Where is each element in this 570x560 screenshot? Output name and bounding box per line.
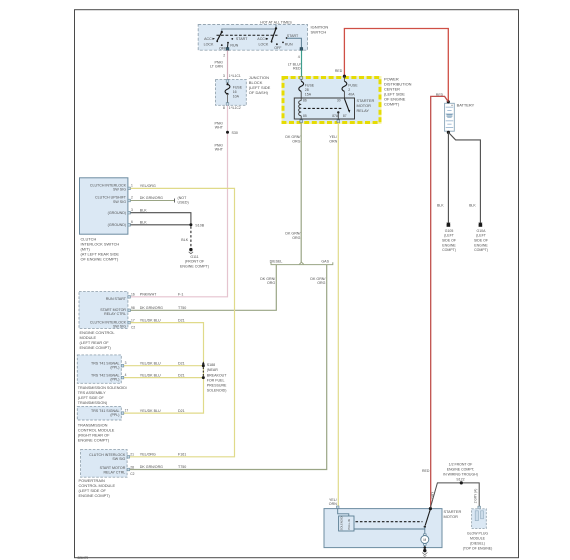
svg-text:DK GRN/ORG: DK GRN/ORG bbox=[140, 306, 163, 310]
svg-text:226479: 226479 bbox=[78, 556, 89, 560]
svg-text:17: 17 bbox=[125, 409, 129, 413]
wire DK GRN/ORG gas branch to PCM bbox=[130, 265, 327, 470]
svg-text:DK GRN/ORG: DK GRN/ORG bbox=[140, 465, 163, 469]
svg-text:RELAY: RELAY bbox=[357, 108, 370, 113]
svg-text:RED: RED bbox=[422, 469, 430, 473]
svg-text:87: 87 bbox=[343, 114, 347, 118]
svg-text:G105: G105 bbox=[445, 229, 454, 233]
wire DK GRN/ORG clutch pin2 not used bbox=[131, 196, 189, 204]
clutch interlock switch box bbox=[80, 178, 134, 234]
svg-text:SOLENOID): SOLENOID) bbox=[207, 389, 227, 393]
wire BLK clutch pin6 bbox=[131, 221, 191, 225]
engine control module label bbox=[80, 330, 116, 350]
svg-text:USED): USED) bbox=[178, 200, 189, 204]
svg-text:1: 1 bbox=[131, 184, 133, 188]
svg-text:SOLENOID: SOLENOID bbox=[339, 516, 343, 530]
svg-text:T750: T750 bbox=[178, 306, 186, 310]
svg-text:S10B: S10B bbox=[195, 223, 204, 227]
svg-text:PULL-IN: PULL-IN bbox=[347, 519, 351, 529]
svg-text:(GROUND): (GROUND) bbox=[108, 223, 126, 227]
splice S122 wiring trough bbox=[430, 462, 479, 507]
svg-text:10A: 10A bbox=[233, 94, 240, 98]
svg-text:BREAKOUT: BREAKOUT bbox=[207, 373, 228, 377]
svg-text:ORG: ORG bbox=[317, 281, 325, 285]
svg-text:ENGINE: ENGINE bbox=[474, 243, 488, 247]
ground G10A bbox=[474, 223, 488, 253]
svg-text:OF ENGINE COMPT): OF ENGINE COMPT) bbox=[81, 257, 120, 262]
svg-text:S188: S188 bbox=[207, 363, 215, 367]
wire YEL/ORG clutch pin1 to PCM pin 21 bbox=[130, 184, 235, 457]
powertrain control module box bbox=[81, 450, 135, 478]
svg-text:BLK: BLK bbox=[140, 221, 147, 225]
wire label YEL/ORN at starter bbox=[329, 498, 337, 506]
pin 2 terminal bbox=[223, 48, 229, 58]
svg-text:RED: RED bbox=[293, 67, 301, 71]
svg-text:START: START bbox=[236, 37, 248, 41]
svg-text:28: 28 bbox=[130, 465, 134, 469]
node battery negative junction bbox=[447, 131, 450, 134]
ground G111 bbox=[180, 248, 209, 268]
node pin 3 junction block bbox=[223, 74, 241, 78]
svg-text:BLK: BLK bbox=[469, 204, 476, 208]
svg-text:SW SIG: SW SIG bbox=[113, 200, 126, 204]
relay coil bbox=[299, 98, 307, 119]
svg-text:HOT AT ALL TIMES: HOT AT ALL TIMES bbox=[260, 20, 292, 24]
svg-text:ENGINE COMPT): ENGINE COMPT) bbox=[79, 493, 111, 498]
wire START contact to pin 4 bbox=[287, 38, 301, 47]
svg-text:ENGINE COMPT): ENGINE COMPT) bbox=[80, 345, 112, 350]
svg-text:SWITCH: SWITCH bbox=[311, 30, 327, 35]
svg-text:86: 86 bbox=[303, 99, 307, 103]
svg-text:YEL/DK BLU: YEL/DK BLU bbox=[140, 361, 161, 365]
svg-text:MODULE: MODULE bbox=[470, 536, 486, 540]
svg-text:(PPL): (PPL) bbox=[110, 366, 119, 370]
svg-text:DK GRN/ORG: DK GRN/ORG bbox=[140, 196, 163, 200]
svg-text:RUN: RUN bbox=[230, 43, 238, 47]
svg-text:85: 85 bbox=[303, 114, 307, 118]
svg-text:COMPT): COMPT) bbox=[384, 102, 400, 107]
svg-text:(PPL): (PPL) bbox=[110, 413, 119, 417]
svg-text:(NEAR: (NEAR bbox=[207, 368, 219, 372]
svg-text:1/2 FRONT OF: 1/2 FRONT OF bbox=[449, 462, 473, 466]
wire mechanical link (dashed) bbox=[217, 34, 278, 36]
svg-text:ORG: ORG bbox=[292, 236, 300, 240]
ignition switch right wafer bbox=[257, 28, 299, 50]
starter solenoid bbox=[338, 509, 354, 531]
svg-text:ACC: ACC bbox=[204, 37, 212, 41]
svg-text:ENGINE: ENGINE bbox=[442, 243, 456, 247]
fuse F16 (FUSE 16 10A) bbox=[225, 82, 243, 102]
glow plug module label bbox=[463, 531, 493, 550]
svg-text:RELAY CTRL: RELAY CTRL bbox=[103, 470, 125, 474]
svg-text:WHT: WHT bbox=[215, 148, 224, 152]
wire motor to case ground bbox=[424, 545, 427, 550]
glow plug module box bbox=[472, 506, 487, 528]
svg-text:RUN START: RUN START bbox=[106, 297, 127, 301]
wire BLK battery to ground G105 bbox=[437, 132, 448, 222]
svg-text:IN WIRING TROUGH): IN WIRING TROUGH) bbox=[443, 472, 478, 476]
svg-text:S30: S30 bbox=[232, 131, 238, 135]
motor M1 starter motor armature bbox=[421, 534, 429, 545]
svg-text:FOR FUEL: FOR FUEL bbox=[207, 378, 225, 382]
wire YEL/ORN relay 87A to starter motor bbox=[329, 123, 338, 507]
svg-text:(PPL): (PPL) bbox=[110, 378, 119, 382]
svg-text:(GROUND): (GROUND) bbox=[108, 211, 126, 215]
wire label PNK/WHT ECM pin16 bbox=[140, 293, 184, 297]
svg-text:2: 2 bbox=[131, 196, 133, 200]
svg-text:WHT: WHT bbox=[215, 126, 224, 130]
svg-text:COMPT): COMPT) bbox=[442, 248, 456, 252]
svg-text:PRESSURE: PRESSURE bbox=[207, 384, 227, 388]
svg-text:COMPT): COMPT) bbox=[474, 248, 488, 252]
svg-text:C2: C2 bbox=[130, 472, 134, 476]
svg-text:TRANSMISSION SOLENOID/: TRANSMISSION SOLENOID/ bbox=[78, 386, 128, 390]
splice S10B bbox=[189, 223, 204, 227]
power distribution center box bbox=[282, 76, 382, 124]
wire label PNK/WHT lower bbox=[215, 143, 224, 151]
svg-text:30: 30 bbox=[337, 99, 341, 103]
relay bottom pin squares bbox=[300, 120, 340, 123]
svg-text:MOTOR: MOTOR bbox=[444, 514, 459, 519]
svg-text:4: 4 bbox=[298, 55, 300, 59]
svg-text:(FRONT OF: (FRONT OF bbox=[185, 260, 205, 264]
svg-text:S122: S122 bbox=[456, 478, 464, 482]
node battery positive junction bbox=[436, 93, 450, 103]
wire LT BLU/RED ignition pin4 to PDC bbox=[288, 50, 302, 76]
svg-text:C2: C2 bbox=[131, 325, 135, 329]
splice bar DIESEL/GAS bbox=[270, 260, 333, 265]
svg-text:BLK: BLK bbox=[181, 238, 188, 242]
svg-text:ORN: ORN bbox=[329, 139, 337, 143]
clutch interlock switch label bbox=[81, 237, 120, 262]
svg-text:2 GRY (A): 2 GRY (A) bbox=[474, 489, 478, 504]
svg-text:4: 4 bbox=[125, 373, 127, 377]
svg-text:SIDE OF: SIDE OF bbox=[474, 239, 488, 243]
svg-text:OFF: OFF bbox=[274, 46, 282, 50]
ground G105 bbox=[442, 223, 456, 253]
svg-text:GLOW PLUG: GLOW PLUG bbox=[467, 531, 488, 535]
svg-text:BLK: BLK bbox=[140, 208, 147, 212]
svg-text:ORG: ORG bbox=[292, 139, 300, 143]
splice S30 bbox=[226, 131, 238, 135]
wire BLK battery to ground G10A bbox=[448, 132, 480, 222]
wire DK GRN/ORG relay coil to splice bar bbox=[285, 123, 301, 263]
svg-text:LOCK: LOCK bbox=[204, 43, 214, 47]
svg-text:1*/L1C2: 1*/L1C2 bbox=[229, 106, 241, 110]
relay contact dashed link bbox=[304, 107, 342, 109]
svg-text:G111: G111 bbox=[190, 255, 198, 259]
svg-text:GAS: GAS bbox=[321, 260, 329, 264]
svg-text:16: 16 bbox=[233, 90, 237, 94]
svg-text:START: START bbox=[287, 34, 299, 38]
relay K1 starter motor relay box bbox=[294, 98, 354, 119]
svg-text:GRY: GRY bbox=[430, 491, 434, 499]
svg-text:(LEFT: (LEFT bbox=[444, 234, 455, 238]
svg-text:M: M bbox=[423, 538, 426, 542]
wire BLK clutch pin3 bbox=[131, 208, 191, 224]
wire label DK GRN/ORG ECM pin98 bbox=[140, 306, 186, 310]
svg-text:ORG: ORG bbox=[267, 281, 275, 285]
svg-text:TRANSMISSION): TRANSMISSION) bbox=[78, 401, 107, 405]
svg-text:ORN: ORN bbox=[329, 502, 337, 506]
starter motor relay label bbox=[357, 98, 375, 113]
svg-text:3: 3 bbox=[131, 208, 133, 212]
ignition switch label bbox=[311, 25, 329, 35]
svg-text:LOCK: LOCK bbox=[259, 42, 269, 46]
svg-text:BLK: BLK bbox=[437, 204, 444, 208]
starter motor box bbox=[324, 506, 461, 548]
svg-text:SW SIG: SW SIG bbox=[112, 457, 125, 461]
svg-text:RUN: RUN bbox=[285, 43, 293, 47]
svg-text:T750: T750 bbox=[178, 465, 186, 469]
powertrain control module label bbox=[79, 478, 116, 498]
svg-text:(DIESEL): (DIESEL) bbox=[470, 541, 485, 545]
svg-text:SW SIG: SW SIG bbox=[113, 325, 126, 329]
page border frame bbox=[75, 10, 519, 558]
svg-text:D21: D21 bbox=[178, 318, 185, 322]
wire RED battery to fuse 2 (top loop) bbox=[335, 29, 448, 102]
ignition switch left wafer bbox=[204, 31, 249, 51]
svg-text:FUSE: FUSE bbox=[305, 83, 315, 87]
svg-text:YEL/ORG: YEL/ORG bbox=[140, 453, 156, 457]
svg-text:SIDE OF: SIDE OF bbox=[442, 239, 456, 243]
node starter B+ terminal bbox=[429, 507, 432, 510]
wire PNK/LT GRN ignition pin2 to junction block bbox=[210, 50, 227, 79]
svg-text:RED: RED bbox=[335, 69, 343, 73]
svg-text:(LEFT: (LEFT bbox=[476, 234, 487, 238]
svg-text:D21: D21 bbox=[178, 373, 185, 377]
svg-text:D21: D21 bbox=[178, 361, 185, 365]
svg-text:YEL/DK BLU: YEL/DK BLU bbox=[140, 373, 161, 377]
fuse F2 (FUSE 2 40A) bbox=[342, 75, 358, 98]
wire BLK dashed to ground G111 bbox=[181, 226, 191, 248]
svg-text:15A: 15A bbox=[305, 92, 312, 96]
relay switch pin30 to 87 bbox=[332, 99, 350, 119]
starter relay contact dashed link bbox=[356, 521, 423, 523]
pin 4 terminal bbox=[298, 48, 303, 60]
svg-text:YEL/DK BLU: YEL/DK BLU bbox=[140, 318, 161, 322]
ground starter case bbox=[422, 549, 427, 557]
svg-text:SW SIG: SW SIG bbox=[113, 188, 126, 192]
svg-text:LT GRN: LT GRN bbox=[210, 65, 223, 69]
wire RED battery to starter motor bbox=[422, 96, 448, 508]
transmission solenoid label bbox=[78, 386, 128, 405]
splice S188 bbox=[202, 361, 227, 392]
wire YEL/DK BLU TRS pin1 to splice bbox=[124, 373, 203, 377]
wire ignition feed bus bbox=[222, 25, 277, 33]
node pin 8 junction block bbox=[223, 106, 241, 110]
starter switch blade bbox=[424, 509, 431, 528]
svg-text:TRS ASSEMBLY: TRS ASSEMBLY bbox=[78, 391, 106, 395]
transmission control module label bbox=[78, 423, 115, 443]
junction block label bbox=[249, 75, 271, 95]
svg-text:PNK/WHT: PNK/WHT bbox=[140, 293, 157, 297]
transmission control module box bbox=[77, 406, 128, 420]
svg-text:ENGINE COMPT,: ENGINE COMPT, bbox=[447, 467, 475, 471]
wire YEL/DK BLU ECM pin17 to TCM bbox=[124, 318, 204, 413]
wire DK GRN/ORG diesel branch to ECM pin 98 bbox=[131, 265, 277, 311]
svg-text:RELAY CTRL: RELAY CTRL bbox=[104, 312, 126, 316]
svg-text:2: 2 bbox=[348, 88, 350, 92]
fuse F28 (FUSE 28 15A) bbox=[299, 77, 315, 98]
engine control module box bbox=[79, 292, 135, 330]
svg-text:D21: D21 bbox=[178, 409, 185, 413]
svg-text:8: 8 bbox=[223, 106, 225, 110]
wire YEL/DK BLU TRS pin3 to splice bbox=[124, 361, 203, 365]
svg-text:21: 21 bbox=[130, 453, 134, 457]
svg-text:YEL/DK BLU: YEL/DK BLU bbox=[140, 409, 161, 413]
ignition switch S1 box bbox=[198, 25, 307, 51]
svg-text:DIESEL: DIESEL bbox=[270, 260, 283, 264]
svg-text:F-1: F-1 bbox=[178, 293, 183, 297]
svg-text:FUSE: FUSE bbox=[348, 83, 358, 87]
svg-text:6: 6 bbox=[131, 220, 133, 224]
svg-text:OF DASH): OF DASH) bbox=[249, 90, 269, 95]
junction block box bbox=[216, 80, 247, 106]
svg-text:(LEFT SIDE OF: (LEFT SIDE OF bbox=[78, 396, 105, 400]
svg-text:ENGINE COMPT): ENGINE COMPT) bbox=[78, 438, 110, 443]
svg-text:F161: F161 bbox=[178, 453, 186, 457]
svg-text:FUSE: FUSE bbox=[233, 85, 243, 89]
battery BAT bbox=[445, 103, 475, 132]
svg-text:ACC: ACC bbox=[257, 37, 265, 41]
svg-text:YEL/ORG: YEL/ORG bbox=[140, 184, 156, 188]
wire PNK/WHT junction block to ECM pin 16 bbox=[131, 105, 228, 296]
svg-text:17: 17 bbox=[131, 319, 135, 323]
svg-text:98: 98 bbox=[131, 306, 135, 310]
svg-text:ENGINE COMPT): ENGINE COMPT) bbox=[180, 264, 209, 268]
svg-text:1*/L1C1: 1*/L1C1 bbox=[229, 74, 241, 78]
svg-text:BATTERY: BATTERY bbox=[457, 103, 475, 108]
svg-text:16: 16 bbox=[131, 293, 135, 297]
svg-text:G10A: G10A bbox=[477, 229, 487, 233]
wire label YEL/DK BLU TCM pin17 bbox=[140, 409, 185, 413]
svg-text:28: 28 bbox=[305, 88, 309, 92]
svg-text:(TOP OF ENGINE): (TOP OF ENGINE) bbox=[463, 546, 493, 550]
svg-text:40A: 40A bbox=[348, 92, 355, 96]
wire solenoid output to motor bbox=[354, 527, 425, 536]
svg-text:3: 3 bbox=[125, 361, 127, 365]
wire label DK GRN/ORG PCM pin28 bbox=[140, 465, 186, 469]
transmission solenoid TRS assembly box bbox=[77, 355, 126, 383]
svg-text:3: 3 bbox=[223, 74, 225, 78]
svg-text:2: 2 bbox=[223, 53, 225, 57]
power distribution center label bbox=[384, 77, 412, 107]
